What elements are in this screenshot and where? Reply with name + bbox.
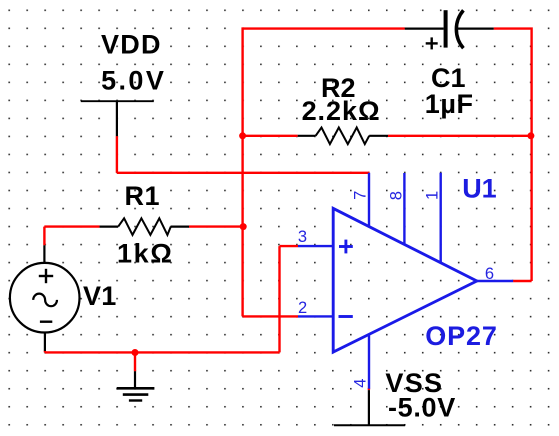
svg-text:1: 1 [424,191,442,200]
svg-text:VDD: VDD [101,29,162,59]
svg-text:6: 6 [485,265,494,283]
svg-text:7: 7 [352,191,370,200]
svg-text:3: 3 [298,228,307,246]
svg-text:5.0V: 5.0V [101,65,166,95]
svg-text:U1: U1 [462,173,497,203]
svg-text:V1: V1 [83,281,117,311]
svg-text:OP27: OP27 [425,321,497,351]
svg-text:R1: R1 [125,181,161,211]
svg-text:1µF: 1µF [425,89,474,119]
svg-text:1kΩ: 1kΩ [117,239,173,269]
svg-text:-5.0V: -5.0V [388,392,456,422]
svg-text:2: 2 [298,299,307,317]
svg-text:2.2kΩ: 2.2kΩ [302,96,381,126]
svg-text:8: 8 [388,191,406,200]
svg-text:4: 4 [351,379,369,388]
